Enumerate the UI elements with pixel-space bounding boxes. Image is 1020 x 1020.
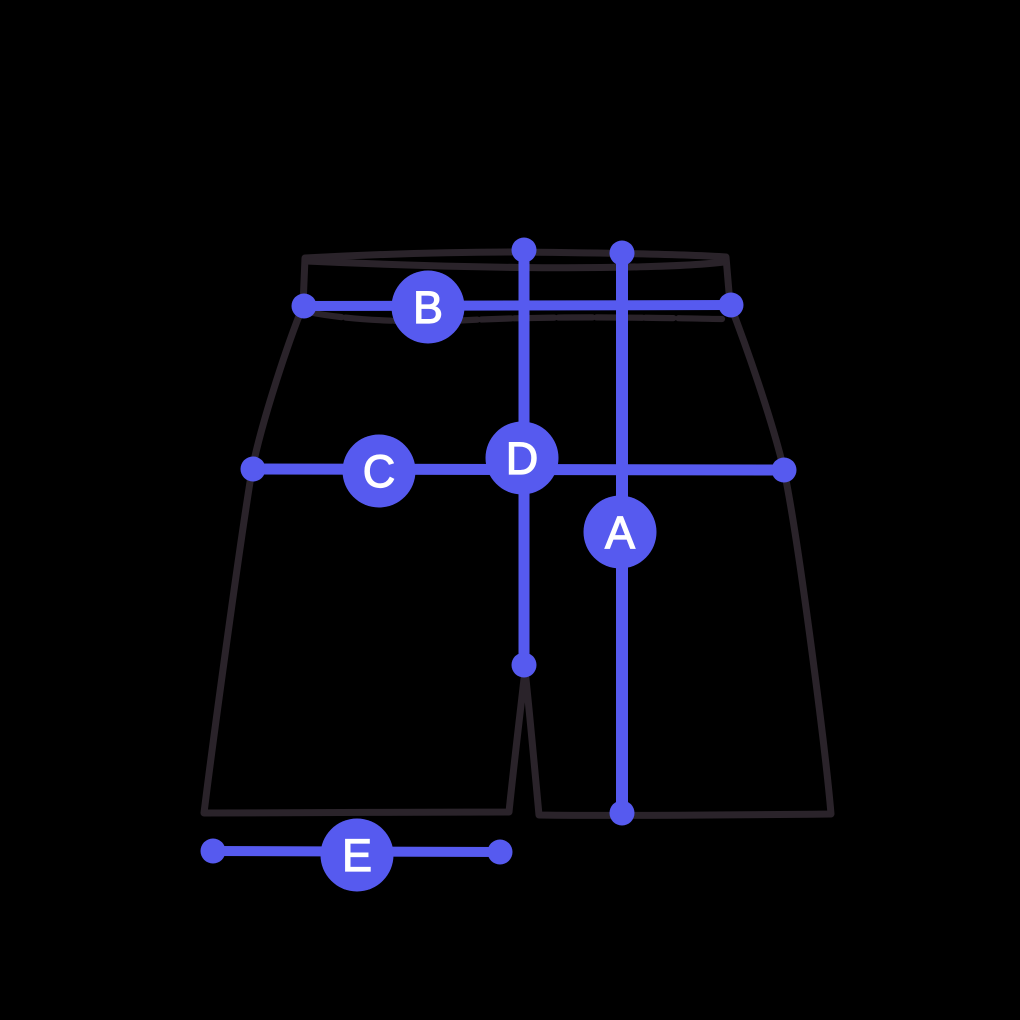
label circle A (584, 496, 657, 569)
measurement line D vertical (519, 249, 530, 665)
label circle D (486, 422, 559, 495)
waistband bottom sketchy line (308, 312, 722, 321)
dot D bottom (512, 653, 537, 678)
label circle C (343, 435, 416, 508)
dot E left (201, 839, 226, 864)
measurement line C/D horizontal (253, 469, 784, 470)
dot E right (488, 840, 513, 865)
dot A bottom (610, 801, 635, 826)
measurement line E (213, 851, 500, 852)
dot B left (292, 294, 317, 319)
svg-text:B: B (413, 282, 443, 333)
dot C right (772, 458, 797, 483)
label circle B (392, 271, 465, 344)
shorts outer outline (204, 252, 831, 815)
svg-text:E: E (342, 830, 372, 881)
dot D top (512, 238, 537, 263)
svg-text:A: A (605, 507, 635, 558)
waistband inner top line (306, 261, 724, 268)
dot C left (241, 457, 266, 482)
label circle E (321, 819, 394, 892)
svg-text:D: D (506, 433, 539, 484)
dot B right (719, 293, 744, 318)
measurement line B (304, 305, 731, 306)
dot A top (610, 241, 635, 266)
measurement line A vertical (616, 253, 628, 813)
svg-text:C: C (363, 446, 396, 497)
